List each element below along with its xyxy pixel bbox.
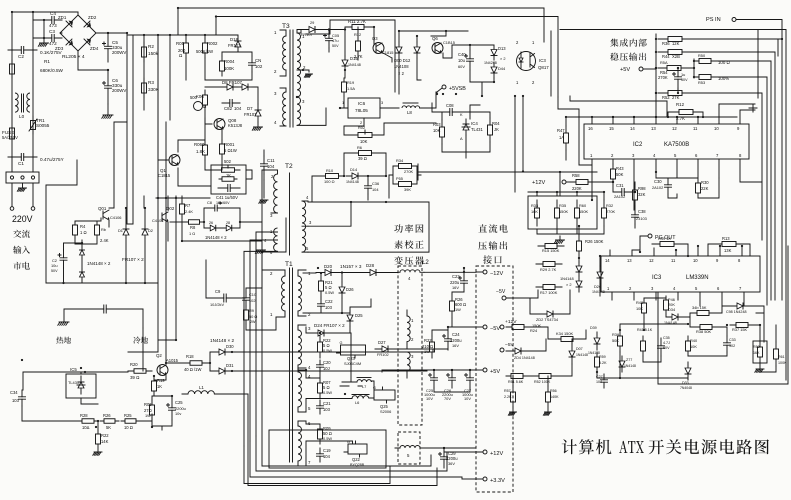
box Q22 cell xyxy=(269,430,386,468)
svg-text:60V: 60V xyxy=(663,346,670,350)
svg-text:39K: 39K xyxy=(404,187,411,192)
svg-text:R60: R60 xyxy=(579,203,587,208)
resistor R04 xyxy=(489,118,491,142)
wire -12V rail xyxy=(424,271,476,273)
node pin bus dots xyxy=(612,116,614,118)
transformer T1 sec winding 3 xyxy=(298,372,302,407)
svg-text:5.2K: 5.2K xyxy=(599,361,607,365)
resistor R40 xyxy=(687,336,689,356)
capacitor C9 xyxy=(213,297,237,299)
svg-text:R42: R42 xyxy=(636,300,643,305)
svg-text:C33: C33 xyxy=(729,338,736,342)
svg-text:D31: D31 xyxy=(226,363,234,368)
resistor R53 xyxy=(694,76,716,78)
capacitor C26 xyxy=(451,370,453,388)
resistor R09 xyxy=(319,424,321,444)
svg-text:R10: R10 xyxy=(326,168,334,173)
svg-text:R26: R26 xyxy=(103,413,111,418)
resistor R19 xyxy=(153,376,155,396)
svg-text:R51 5.6K: R51 5.6K xyxy=(508,380,524,384)
wire +12V rail xyxy=(426,447,476,449)
capacitor C30 xyxy=(667,178,669,194)
resistor R3 xyxy=(143,78,145,98)
resistor R52 xyxy=(658,92,692,94)
capacitor C24 xyxy=(447,330,449,350)
transistor Q08 xyxy=(216,120,218,128)
wire right box xyxy=(658,246,788,384)
capacitor C82 xyxy=(222,102,240,104)
svg-text:10V: 10V xyxy=(464,396,471,401)
svg-text:G: G xyxy=(373,386,376,390)
resistor R54 xyxy=(658,67,690,69)
svg-text:C4106: C4106 xyxy=(152,218,163,223)
capacitor C29 xyxy=(443,448,445,468)
svg-text:1N4148 × 2: 1N4148 × 2 xyxy=(87,261,111,266)
svg-text:C1B15: C1B15 xyxy=(443,40,455,45)
label title 开关电源电路图 xyxy=(649,439,769,454)
resistor R98 xyxy=(634,184,636,206)
svg-text:50K: 50K xyxy=(612,338,619,343)
svg-text:3: 3 xyxy=(381,100,383,105)
svg-text:+5V: +5V xyxy=(490,369,500,375)
svg-text:16K: 16K xyxy=(531,209,538,214)
capacitor C2b xyxy=(63,250,65,268)
svg-text:12: 12 xyxy=(649,258,654,263)
svg-text:L2: L2 xyxy=(422,259,429,266)
svg-text:12K: 12K xyxy=(672,41,680,46)
svg-text:1N4148: 1N4148 xyxy=(560,276,574,281)
svg-text:10J: 10J xyxy=(323,366,330,371)
resistor R36 xyxy=(658,38,692,40)
svg-text:78L05: 78L05 xyxy=(355,108,368,113)
svg-text:C1815: C1815 xyxy=(382,50,393,55)
svg-text:IC3: IC3 xyxy=(652,275,662,281)
svg-text:R22: R22 xyxy=(424,338,432,343)
svg-text:10Δ: 10Δ xyxy=(82,425,90,430)
svg-text:28: 28 xyxy=(226,221,230,225)
svg-text:16: 16 xyxy=(588,126,593,131)
svg-text:−5V: −5V xyxy=(496,289,506,295)
resistor 1K xyxy=(219,178,237,180)
svg-text:R98: R98 xyxy=(638,186,646,191)
wire pfc feed xyxy=(389,166,421,198)
svg-text:50K: 50K xyxy=(616,172,624,177)
resistor R05 xyxy=(185,38,187,58)
svg-text:TL431: TL431 xyxy=(471,127,483,132)
regulator IC5 TL431 xyxy=(80,376,82,394)
svg-text:CN: CN xyxy=(255,58,261,63)
terminal -12V xyxy=(483,270,487,274)
svg-text:150K: 150K xyxy=(559,209,568,214)
svg-text:A: A xyxy=(460,136,463,141)
diode D28 xyxy=(362,272,384,274)
ground R50 xyxy=(759,362,761,368)
svg-text:D8 FR107: D8 FR107 xyxy=(222,80,243,85)
svg-text:R32: R32 xyxy=(606,203,613,208)
svg-text:1.5A: 1.5A xyxy=(347,86,355,91)
inductor L2 winding a xyxy=(400,270,420,273)
wire snubber xyxy=(206,260,276,330)
resistor R24 xyxy=(97,430,99,448)
transformer T3 core xyxy=(290,30,293,127)
diode D20c xyxy=(599,266,601,284)
diode D27 xyxy=(375,348,395,350)
svg-text:ZD3: ZD3 xyxy=(55,46,64,51)
svg-text:L7: L7 xyxy=(362,384,366,389)
terminal PG OUT xyxy=(648,234,652,238)
svg-text:C36: C36 xyxy=(372,181,379,186)
svg-text:C25: C25 xyxy=(175,400,183,405)
svg-text:270K: 270K xyxy=(404,169,413,174)
wire q2 net xyxy=(152,376,172,430)
svg-text:200WV: 200WV xyxy=(112,50,126,55)
wire stair nest xyxy=(244,250,462,484)
svg-text:R20: R20 xyxy=(130,362,138,367)
svg-text:C3: C3 xyxy=(49,29,55,34)
capacitor C40 xyxy=(469,50,471,70)
resistor R9 xyxy=(245,306,247,324)
inductor L2 winding c xyxy=(407,352,410,371)
svg-text:1.8K: 1.8K xyxy=(196,149,205,154)
svg-text:104: 104 xyxy=(234,106,242,111)
diode D24 xyxy=(310,332,332,334)
svg-text:10K: 10K xyxy=(433,128,441,133)
inductor L7 xyxy=(357,377,371,379)
resistor R7 xyxy=(181,202,183,216)
wire mid verticals xyxy=(128,35,158,352)
svg-text:100K: 100K xyxy=(224,66,234,71)
svg-text:C35: C35 xyxy=(663,336,670,340)
transformer T2 feedback winding xyxy=(274,228,278,251)
svg-text:270K: 270K xyxy=(606,209,615,214)
terminal +5VSB xyxy=(442,85,446,89)
svg-text:14K: 14K xyxy=(101,439,109,444)
resistor R61 xyxy=(775,342,777,366)
svg-text:PS IN: PS IN xyxy=(706,17,721,23)
resistor R58 xyxy=(570,181,594,183)
svg-text:103: 103 xyxy=(325,305,333,310)
resistor R26 xyxy=(578,234,580,258)
svg-text:X2B: X2B xyxy=(672,54,680,59)
diode ZD3 xyxy=(66,39,72,45)
svg-text:34b 15K: 34b 15K xyxy=(692,305,707,310)
resistor R18 xyxy=(182,362,210,364)
capacitor C05 xyxy=(328,31,330,48)
svg-text:14: 14 xyxy=(630,126,635,131)
svg-text:1K: 1K xyxy=(226,173,231,178)
svg-text:150K: 150K xyxy=(579,209,588,214)
svg-text:R19: R19 xyxy=(347,80,354,85)
wire tl431 top xyxy=(81,372,98,404)
diode D26 xyxy=(341,282,343,298)
svg-text:+5VSB: +5VSB xyxy=(449,86,466,92)
wire sense tops xyxy=(528,192,604,200)
svg-text:103: 103 xyxy=(323,407,331,412)
inductor L2 lower box xyxy=(398,432,420,464)
diode D39 xyxy=(596,332,598,350)
svg-text:JK: JK xyxy=(494,127,499,132)
wire r50 node xyxy=(690,59,694,78)
wire 5vsb node xyxy=(470,105,480,119)
regulator IC4 TL431 xyxy=(465,119,467,135)
capacitor C34 xyxy=(21,390,23,406)
svg-text:× 2: × 2 xyxy=(566,282,572,287)
terminal block xyxy=(6,172,39,183)
resistor R34c xyxy=(554,338,580,340)
svg-text:102: 102 xyxy=(249,298,256,303)
ground C11b xyxy=(263,180,265,198)
svg-text:27K: 27K xyxy=(672,95,680,100)
label 直流电 xyxy=(478,224,507,233)
port dashed box xyxy=(476,266,513,492)
svg-text:140K: 140K xyxy=(550,395,559,399)
resistor R5 xyxy=(96,222,98,238)
resistor R26b xyxy=(451,294,453,318)
svg-text:LM339N: LM339N xyxy=(686,275,709,281)
svg-text:16V: 16V xyxy=(452,285,459,290)
svg-text:P55: P55 xyxy=(396,176,403,181)
diode D1 1N4148 xyxy=(81,247,83,258)
svg-text:R8: R8 xyxy=(190,225,196,230)
svg-text:IC2: IC2 xyxy=(633,142,643,148)
capacitor Cy xyxy=(98,308,112,310)
resistor R12 xyxy=(357,38,359,54)
svg-text:2.4K: 2.4K xyxy=(185,209,193,214)
label 接口 xyxy=(483,255,502,264)
svg-text:1u: 1u xyxy=(681,72,685,77)
svg-text:D2: D2 xyxy=(148,228,153,233)
svg-text:D7: D7 xyxy=(247,106,253,111)
svg-text:+5V: +5V xyxy=(620,67,630,73)
svg-text:R50: R50 xyxy=(698,53,706,58)
wire AC line L xyxy=(12,12,78,172)
wire stair 2 xyxy=(232,370,427,371)
svg-text:D20: D20 xyxy=(324,264,333,269)
transformer T1 sec winding 1 xyxy=(298,276,302,311)
svg-text:ZD4: ZD4 xyxy=(90,46,99,51)
svg-text:0.5W: 0.5W xyxy=(323,436,332,441)
svg-text:270K: 270K xyxy=(658,75,668,80)
transformer T3 primary winding xyxy=(283,36,286,70)
resistor R16 39ohm xyxy=(352,152,378,154)
svg-text:K06: K06 xyxy=(196,94,204,99)
svg-text:ZD2 TS4734: ZD2 TS4734 xyxy=(536,317,559,322)
svg-text:D27: D27 xyxy=(378,340,386,345)
svg-text:R17 100K: R17 100K xyxy=(540,290,558,295)
optocoupler Q817 xyxy=(517,52,536,71)
wire IC3 stubs top xyxy=(610,246,742,256)
wire ic2 pin bus xyxy=(592,116,737,118)
svg-text:10J/2kV: 10J/2kV xyxy=(210,302,224,307)
terminal -5V a xyxy=(502,296,506,300)
svg-text:50V: 50V xyxy=(681,78,688,82)
regulator IC5 box xyxy=(66,374,96,398)
wire C8 loop xyxy=(204,208,262,228)
svg-text:R9: R9 xyxy=(249,308,254,313)
svg-text:KA7500B: KA7500B xyxy=(664,142,689,148)
svg-text:13K: 13K xyxy=(724,248,732,253)
transformer T1 sec winding 2 xyxy=(298,330,302,365)
svg-text:26: 26 xyxy=(209,221,213,225)
svg-text:200WV: 200WV xyxy=(112,88,126,93)
svg-text:104: 104 xyxy=(372,187,379,192)
svg-text:12: 12 xyxy=(672,126,677,131)
diode D12b xyxy=(416,42,418,58)
diode ZD4 xyxy=(506,350,530,352)
capacitor C3 xyxy=(44,37,62,39)
terminal -5V xyxy=(483,325,487,329)
resistor R06b xyxy=(151,400,153,420)
svg-text:502: 502 xyxy=(224,159,232,164)
svg-text:R18: R18 xyxy=(186,354,194,359)
terminal +3.3V xyxy=(483,477,487,481)
svg-text:C40: C40 xyxy=(458,52,466,57)
svg-text:10: 10 xyxy=(693,258,698,263)
svg-text:16V: 16V xyxy=(452,343,459,348)
bridge rectifier frame xyxy=(60,15,96,51)
label 稳压输出 xyxy=(610,53,646,61)
capacitor C20 xyxy=(319,360,321,372)
svg-text:Q22: Q22 xyxy=(352,457,361,462)
svg-text:39 Ω: 39 Ω xyxy=(358,156,367,161)
svg-text:104: 104 xyxy=(323,454,331,459)
wire -5V rail xyxy=(340,349,398,386)
wire right net c xyxy=(688,317,776,372)
svg-text:C41 1u/50V: C41 1u/50V xyxy=(216,195,238,200)
wire AC line N xyxy=(32,12,34,172)
svg-text:R12: R12 xyxy=(676,102,685,107)
transformer T3 primary lower winding xyxy=(283,92,286,126)
svg-text:C11: C11 xyxy=(267,158,275,163)
resistor R50c xyxy=(759,342,761,362)
resistor R38 xyxy=(694,326,718,328)
transistor Q01 xyxy=(102,211,104,219)
resistor R41 xyxy=(642,336,644,356)
thermistor TR1 xyxy=(32,116,34,134)
svg-text:1N4148 × 2: 1N4148 × 2 xyxy=(210,338,234,343)
svg-text:Q817: Q817 xyxy=(538,65,549,70)
svg-text:R35: R35 xyxy=(559,203,566,208)
svg-text:−5V: −5V xyxy=(490,326,500,332)
wire cold xyxy=(112,309,143,328)
svg-text:D14: D14 xyxy=(350,167,358,172)
diode ZD2 xyxy=(538,313,562,315)
svg-text:L0: L0 xyxy=(19,114,25,119)
resistor R35 xyxy=(556,200,558,226)
svg-text:C4: C4 xyxy=(50,11,56,16)
svg-text:500K/1W: 500K/1W xyxy=(196,49,213,54)
diode D9 xyxy=(303,29,321,31)
capacitor C35 xyxy=(660,338,662,356)
resistor R50 xyxy=(694,60,716,62)
svg-text:102: 102 xyxy=(729,344,735,348)
label title ATX xyxy=(619,441,644,453)
resistor R33 xyxy=(536,200,538,226)
svg-text:Rb: Rb xyxy=(101,227,106,232)
resistor R42 xyxy=(643,298,645,318)
ic IC3 box xyxy=(601,256,760,292)
terminal pin N xyxy=(31,207,35,211)
svg-text:D44: D44 xyxy=(498,66,506,71)
terminal +12V b xyxy=(500,325,504,329)
svg-text:C23: C23 xyxy=(452,274,460,279)
svg-text:C30: C30 xyxy=(654,179,662,184)
node t-mark xyxy=(749,104,757,112)
resistor R13 xyxy=(714,243,744,245)
transformer T2 primary winding xyxy=(274,174,278,213)
svg-text:50V: 50V xyxy=(51,269,58,273)
svg-text:A1015: A1015 xyxy=(166,358,179,363)
svg-text:R40: R40 xyxy=(690,338,698,343)
terminal -5V b xyxy=(500,348,504,352)
svg-text:FR107: FR107 xyxy=(244,112,257,117)
diode D18 xyxy=(237,36,239,52)
svg-text:70V: 70V xyxy=(444,396,451,401)
inductor L0 common-mode choke xyxy=(15,93,18,112)
svg-text:2A102: 2A102 xyxy=(614,194,625,199)
diode D8b xyxy=(238,86,252,88)
svg-text:R61: R61 xyxy=(778,355,785,359)
svg-text:473: 473 xyxy=(49,23,57,28)
svg-text:R1: R1 xyxy=(44,59,50,64)
svg-text:R49 1K: R49 1K xyxy=(658,236,671,241)
svg-text:13: 13 xyxy=(651,126,656,131)
resistor R22b xyxy=(431,336,433,358)
svg-text:R52: R52 xyxy=(662,95,670,100)
capacitor C21 xyxy=(319,400,321,414)
svg-text:D39: D39 xyxy=(590,326,597,330)
svg-text:R58: R58 xyxy=(572,173,580,178)
resistor R30 xyxy=(697,178,699,198)
label 冷地 xyxy=(133,337,148,344)
wire C40 cell xyxy=(443,45,494,96)
capacitor C5 xyxy=(107,33,109,62)
svg-text:1N4108: 1N4108 xyxy=(394,64,409,69)
inductor L6 xyxy=(352,394,369,396)
wire IC2 pin stubs bottom xyxy=(592,159,762,210)
svg-text:ZD1: ZD1 xyxy=(58,15,67,20)
svg-text:R22: R22 xyxy=(101,433,109,438)
svg-text:FR107: FR107 xyxy=(301,32,313,37)
svg-text:2A102: 2A102 xyxy=(652,185,663,190)
capacitor C1 xyxy=(8,156,37,158)
svg-text:Q2: Q2 xyxy=(156,353,162,358)
svg-text:FR107: FR107 xyxy=(228,43,241,48)
svg-text:S0055: S0055 xyxy=(36,123,50,128)
svg-text:39 Ω: 39 Ω xyxy=(130,375,140,380)
capacitor C33 xyxy=(726,336,728,352)
capacitor C8 xyxy=(206,207,226,209)
capacitor C6 xyxy=(107,70,109,104)
wire right verticals xyxy=(560,30,786,381)
svg-text:C31: C31 xyxy=(616,183,624,188)
svg-text:IC4: IC4 xyxy=(471,121,478,126)
svg-text:C1815: C1815 xyxy=(158,173,171,178)
svg-text:T2: T2 xyxy=(285,163,293,170)
svg-text:R4: R4 xyxy=(80,224,86,229)
svg-text:10u: 10u xyxy=(458,58,466,63)
svg-text:C20: C20 xyxy=(323,360,331,365)
mosfet Q22 xyxy=(348,444,367,454)
regulator IC6 78L05 xyxy=(348,98,380,118)
wire sec top xyxy=(306,20,395,92)
svg-text:C34: C34 xyxy=(10,390,18,395)
svg-text:C38: C38 xyxy=(638,209,646,214)
diode D8a xyxy=(222,86,238,88)
diode D4 FR107 xyxy=(144,226,146,238)
capacitor C23 xyxy=(463,272,465,292)
wire stair up xyxy=(430,455,432,461)
